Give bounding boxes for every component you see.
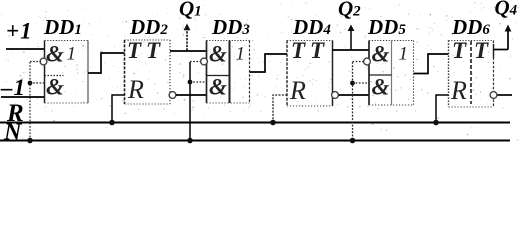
DD2 inverted output circle: [169, 92, 176, 99]
element DD1 box: [45, 41, 89, 104]
svg-text:R: R: [450, 76, 467, 105]
svg-text:&: &: [372, 42, 390, 67]
wire N tap vertical x190: [189, 62, 191, 141]
wire stub to DD3 lower & input: [190, 81, 207, 83]
svg-text:T: T: [310, 38, 325, 63]
wire stub to DD5 inverted input: [353, 61, 364, 63]
scan speckle clusters: [1, 2, 519, 139]
wire N tap vertical x352.5: [352, 62, 354, 141]
svg-text:T: T: [127, 38, 142, 63]
wire DD3 output to DD4: [250, 54, 288, 72]
svg-text:DD2: DD2: [129, 15, 168, 39]
junction DD1 lower input: [28, 81, 33, 86]
wire DD2 notQ to DD3 lower input: [176, 94, 207, 96]
junction N bus x352.5: [350, 138, 356, 144]
junction DD5 lower input: [350, 81, 355, 86]
svg-text:T: T: [474, 38, 489, 63]
svg-text:T: T: [146, 38, 161, 63]
output Q4 arrow: [505, 25, 512, 50]
element DD4 box: [287, 41, 333, 107]
svg-text:&: &: [209, 42, 227, 67]
wire R bus tap to DD4: [273, 95, 287, 123]
svg-text:1: 1: [236, 44, 246, 65]
svg-text:&: &: [46, 75, 64, 100]
svg-text:+1: +1: [6, 19, 33, 44]
svg-text:1: 1: [399, 44, 409, 65]
DD6 inverted output circle: [490, 92, 497, 99]
wire R bus tap to DD2: [112, 95, 125, 123]
DD6 right edge solid segment: [493, 44, 495, 58]
wire DD4 Q output to DD5: [333, 49, 370, 51]
wire stub to DD3 inverted input: [190, 61, 201, 63]
svg-text:T: T: [452, 38, 467, 63]
DD5 inverted input circle: [364, 58, 371, 65]
svg-text:&: &: [46, 42, 64, 67]
element DD5 box: [369, 41, 414, 106]
svg-text:Q1: Q1: [179, 0, 202, 21]
wire N tap to DD1 (vertical x30): [29, 62, 31, 141]
svg-text:DD3: DD3: [211, 15, 250, 39]
junction R bus x273: [270, 120, 276, 126]
bus N: [0, 140, 510, 142]
wire DD1 output to DD2: [88, 53, 125, 73]
wire DD6 Q output to Q4 arrow: [494, 49, 509, 51]
wire DD4 notQ to DD5 lower input: [339, 94, 370, 96]
wire stub to DD1 lower & input: [30, 82, 45, 84]
element DD3 box: [207, 41, 250, 104]
svg-text:DD6: DD6: [451, 15, 490, 39]
junction DD3 lower input: [188, 80, 193, 85]
svg-text:T: T: [291, 38, 306, 63]
wire -1 to DD1: [1, 96, 45, 98]
wire R bus tap to DD6: [436, 95, 449, 123]
junction N bus x190: [187, 138, 193, 144]
svg-text:&: &: [209, 75, 227, 100]
wire +1 to DD1: [6, 48, 45, 50]
svg-text:N: N: [3, 120, 23, 146]
svg-text:1: 1: [67, 44, 77, 65]
junction R bus x436: [433, 120, 439, 126]
element DD6 box: [449, 41, 494, 108]
output Q2 arrow: [348, 25, 355, 51]
svg-text:DD1: DD1: [43, 15, 82, 39]
wire stub to DD1 inverted input: [30, 61, 41, 63]
bus R: [0, 122, 510, 124]
element DD2 box: [125, 40, 171, 104]
svg-text:Q4: Q4: [495, 0, 518, 20]
svg-text:&: &: [372, 75, 390, 100]
wire DD2 Q output to DD3: [170, 50, 207, 52]
svg-text:DD4: DD4: [292, 15, 331, 39]
DD4 inverted output circle: [332, 92, 339, 99]
svg-text:Q2: Q2: [338, 0, 361, 21]
svg-text:R: R: [289, 76, 306, 105]
junction N bus x30: [27, 138, 33, 144]
junction R bus x112: [109, 120, 115, 126]
svg-text:R: R: [127, 75, 144, 104]
svg-text:DD5: DD5: [367, 15, 406, 39]
DD3 inverted input circle: [201, 58, 208, 65]
output Q1 arrow: [184, 24, 191, 51]
wire stub to DD5 lower & input: [353, 82, 370, 84]
wire DD5 output to DD6: [414, 54, 449, 74]
DD1 inverted input circle: [40, 58, 47, 65]
wire DD6 notQ stub: [498, 94, 513, 96]
scan speckle noise: [4, 2, 518, 142]
